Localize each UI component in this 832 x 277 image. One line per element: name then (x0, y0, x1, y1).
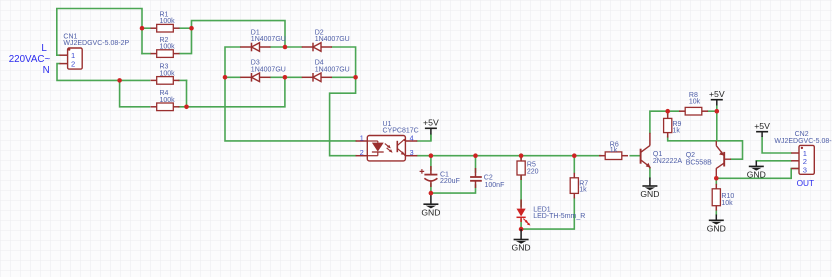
wire R1 left lead (142, 27, 150, 29)
svg-text:LED-TH-5mm_R: LED-TH-5mm_R (533, 213, 585, 220)
junction node R3 left (117, 78, 122, 83)
svg-text:GND: GND (707, 224, 726, 234)
capacitor C2 (470, 168, 504, 189)
svg-text:GND: GND (640, 189, 659, 199)
resistor R1 (151, 12, 180, 33)
wire +5V to CN2 pin1 (762, 137, 791, 153)
svg-text:100k: 100k (160, 44, 176, 51)
wire +5V node down to emitter rail (716, 111, 718, 141)
svg-text:GND: GND (747, 170, 766, 180)
wire R10 top lead (715, 178, 717, 184)
ground at CN2 pin2 (747, 161, 766, 180)
wire Q1 emitter to ground (649, 168, 651, 178)
wire Q2 collector node to CN2 pin3 (716, 169, 799, 179)
diode D3 (240, 60, 286, 82)
svg-text:1N4007GU: 1N4007GU (251, 66, 286, 73)
svg-text:1N4007GU: 1N4007GU (315, 36, 350, 43)
wire R7 bottom to LED node (521, 198, 574, 229)
junction node R1 right (189, 26, 194, 31)
wire main rail from U1 pin3 (417, 155, 600, 157)
junction node R1 left (140, 26, 145, 31)
wire C1 bottom to ground node (430, 184, 432, 193)
optocoupler U1 (356, 121, 419, 161)
svg-text:+5V: +5V (754, 121, 770, 131)
wire LED1 cathode to node (520, 220, 522, 229)
svg-text:N: N (43, 65, 50, 76)
connector CN1 (60, 33, 130, 69)
resistor R6 (599, 141, 628, 159)
junction node D4 right (353, 75, 358, 80)
svg-text:1k: 1k (610, 147, 618, 154)
diode D2 (302, 29, 350, 51)
wire R3 right lead (179, 79, 187, 81)
wire R5 top lead (520, 156, 522, 159)
svg-text:1k: 1k (673, 128, 681, 135)
wire Q1 collector up to R8/R9 node (650, 111, 680, 133)
svg-text:10k: 10k (721, 200, 733, 207)
svg-text:3: 3 (410, 148, 414, 157)
net label L (41, 43, 47, 54)
svg-text:Q2: Q2 (686, 152, 695, 159)
wire CN2 pin2 to ground (756, 160, 791, 162)
connector CN2 (774, 131, 832, 174)
junction node R9 top (665, 109, 670, 114)
svg-text:220VAC~: 220VAC~ (9, 54, 51, 65)
junction node Q2 collector (714, 176, 719, 181)
ground below C1 (421, 193, 440, 217)
transistor Q2 (686, 141, 731, 179)
wire D3 left lead (225, 76, 240, 78)
wire bridge minus: D1/D3 left column to U1 pin1 (225, 47, 356, 141)
svg-text:1N4007GU: 1N4007GU (315, 66, 350, 73)
wire C1 top lead (430, 156, 432, 170)
resistor R2 (151, 37, 180, 57)
wire C2 bottom over to ground node (431, 185, 476, 193)
svg-text:220uF: 220uF (440, 178, 460, 185)
svg-text:C2: C2 (484, 175, 493, 182)
junction node D1-D2 (283, 45, 288, 50)
net label 220VAC~ (9, 54, 51, 65)
wire N: CN1 pin2 down and right to R3 left (57, 64, 149, 81)
net label N (43, 65, 50, 76)
resistor R5 (517, 156, 539, 180)
power +5V at CN2 pin1 (754, 121, 770, 137)
svg-text:2: 2 (71, 60, 75, 69)
junction node D3 left (223, 75, 228, 80)
svg-text:1: 1 (360, 133, 364, 142)
svg-text:100k: 100k (160, 70, 176, 77)
junction node rail R7 (572, 153, 577, 158)
svg-text:2N2222A: 2N2222A (653, 158, 683, 165)
junction node rail C2 (473, 153, 478, 158)
junction node C1/C2 ground (429, 191, 434, 196)
svg-text:100nF: 100nF (485, 182, 505, 189)
svg-text:10k: 10k (689, 98, 701, 105)
wire R3 right down to R4 right (186, 80, 188, 106)
junction node R8 +5V (715, 109, 720, 114)
svg-text:WJ2EDGVC-5.08-3P: WJ2EDGVC-5.08-3P (774, 138, 832, 145)
ground below LED1 (512, 229, 531, 253)
svg-text:BC558B: BC558B (686, 159, 712, 166)
wire D4 right lead (332, 76, 356, 78)
junction node rail R5 (519, 153, 524, 158)
svg-text:220: 220 (527, 168, 539, 175)
resistor R10 (712, 184, 734, 211)
wire R3 left column down to R4 left (120, 80, 150, 106)
resistor R7 (570, 173, 588, 199)
wire R9 bottom rail to Q2 base loop (668, 137, 743, 160)
svg-text:100k: 100k (160, 18, 176, 25)
ground below R10 (707, 215, 726, 234)
net label OUT (797, 178, 815, 188)
wire R2 left lead (142, 53, 150, 55)
wire R1 right lead (180, 27, 192, 29)
svg-text:WJ2EDGVC-5.08-2P: WJ2EDGVC-5.08-2P (63, 40, 129, 47)
wire R1/R2 right up over to D1-D2 midpoint (192, 21, 286, 47)
svg-text:3: 3 (803, 165, 807, 174)
svg-text:+5V: +5V (709, 89, 725, 99)
capacitor C1 (420, 166, 460, 187)
wire R5 to LED1 (520, 175, 522, 206)
wire R9 top lead (667, 111, 669, 114)
wire R8 right to +5V node (708, 110, 717, 112)
wire U1 pin4 to +5V (417, 135, 431, 142)
power +5V at R8 (709, 89, 725, 111)
wire R2 right to R1 right column (180, 28, 192, 53)
svg-text:GND: GND (421, 207, 440, 217)
svg-text:+5V: +5V (423, 118, 439, 128)
wire R4 right to D3-D4 midpoint (179, 77, 285, 107)
LED LED1 (517, 200, 586, 226)
transistor Q1 (641, 133, 683, 169)
wire R6 right to Q1 base (630, 155, 640, 157)
wire bridge plus: D2/D4 right column to U1 pin2 (330, 47, 356, 156)
wire R7 top lead (573, 156, 575, 173)
resistor R8 (679, 92, 708, 115)
wire D1-D2 midpoint (271, 46, 302, 48)
junction LED1/R7 node (519, 227, 524, 232)
svg-text:L: L (41, 43, 47, 54)
svg-text:4: 4 (410, 133, 414, 142)
junction node rail C1 (429, 153, 434, 158)
wire L: CN1 pin1 up and over to R1/R2 left column (57, 9, 142, 56)
diode D4 (302, 60, 350, 82)
resistor R4 (151, 90, 180, 111)
junction node R4 right (184, 105, 189, 110)
wire R10 bottom to ground (715, 211, 717, 215)
wire C2 top lead (475, 156, 477, 172)
ground below Q1 (640, 178, 659, 200)
svg-text:1N4007GU: 1N4007GU (251, 36, 286, 43)
diode D1 (240, 29, 286, 51)
power +5V at U1 pin4 (423, 118, 439, 142)
wire D3 right lead to D4 (271, 76, 302, 78)
svg-text:OUT: OUT (797, 178, 815, 188)
svg-text:2: 2 (360, 148, 364, 157)
svg-text:1k: 1k (579, 187, 587, 194)
svg-text:100k: 100k (160, 97, 176, 104)
resistor R3 (151, 64, 180, 85)
resistor R9 (664, 113, 682, 137)
svg-text:GND: GND (512, 243, 531, 253)
junction node D3-D4 (283, 75, 288, 80)
